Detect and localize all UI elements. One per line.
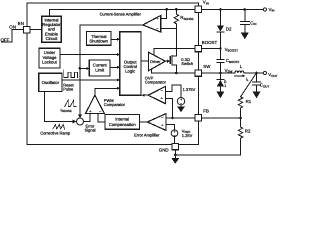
- ground below GND: [171, 158, 179, 164]
- wire boost to driver top: [154, 49, 195, 55]
- svg-text:Switch: Switch: [181, 61, 193, 66]
- ground below D1: [216, 91, 224, 98]
- ground below COUT: [252, 91, 260, 98]
- svg-text:Internal: Internal: [115, 116, 129, 121]
- node rail-csamp junction: [165, 8, 168, 11]
- svg-text:OFF: OFF: [1, 37, 10, 42]
- thermal shutdown block: [87, 32, 112, 46]
- svg-text:FB: FB: [203, 109, 209, 114]
- svg-text:Compensation: Compensation: [109, 122, 137, 127]
- wire corrective ramp from oscillator: [44, 92, 72, 122]
- source 1.375V: [177, 98, 184, 105]
- svg-text:VIN: VIN: [203, 0, 209, 5]
- IC boundary: [27, 3, 199, 145]
- svg-text:ISENSE: ISENSE: [61, 107, 72, 113]
- wire csamp lower input to rsense bottom: [161, 28, 177, 30]
- svg-text:1.25V: 1.25V: [182, 133, 193, 138]
- node FB divider junction: [239, 117, 242, 120]
- wire UVL to OCL: [60, 54, 117, 56]
- current sense amplifier U1: [143, 16, 161, 33]
- svg-text:Signal: Signal: [84, 128, 95, 133]
- svg-text:SW: SW: [203, 64, 211, 69]
- wire error amp output to compensation: [140, 121, 148, 123]
- pin SW: [195, 70, 201, 76]
- external SW wire with inductor L: [202, 72, 235, 74]
- svg-text:Pulse: Pulse: [63, 86, 74, 91]
- svg-text:Oscillator: Oscillator: [42, 80, 60, 85]
- resistor Rsense: [174, 9, 178, 56]
- resistor R2: [175, 118, 242, 155]
- svg-text:Lockout: Lockout: [42, 60, 58, 65]
- diode D1: [219, 73, 221, 79]
- wire thermal shutdown to OCL: [111, 38, 117, 40]
- wire driver bottom to SW: [151, 69, 153, 73]
- svg-text:GND: GND: [159, 148, 169, 153]
- pin EN: [24, 27, 30, 33]
- external boost wire: [202, 48, 221, 50]
- waveform corrective ramp: [53, 125, 65, 129]
- svg-text:RSENSE: RSENSE: [180, 15, 193, 21]
- svg-text:Shutdown: Shutdown: [89, 38, 108, 43]
- resistor R1: [238, 97, 242, 118]
- svg-text:1.375V: 1.375V: [183, 87, 196, 92]
- wire OVP upper input hook to 1.375V: [166, 85, 182, 97]
- wire current limit to OCL: [110, 66, 117, 68]
- wire OCL to driver: [141, 60, 148, 62]
- svg-text:IL: IL: [246, 76, 249, 82]
- wire oscillator to OCL: [62, 79, 117, 81]
- pin FB: [195, 115, 201, 121]
- waveform isense sawtooth: [65, 100, 77, 106]
- error amplifier U5: [147, 114, 166, 131]
- node boost D2 CBOOST junction: [219, 47, 222, 50]
- internal compensation block: [105, 115, 140, 130]
- output control logic block: [120, 32, 141, 95]
- under voltage lockout block: [39, 48, 60, 68]
- wire compensation to PWM minus input: [98, 114, 105, 122]
- wire FB internal to error amp: [166, 117, 195, 119]
- wire error amp plus input to vref: [166, 124, 175, 130]
- ground below CIN: [241, 32, 249, 39]
- node VOUT junction: [255, 72, 258, 75]
- svg-text:L: L: [240, 64, 243, 69]
- svg-text:Circuit: Circuit: [46, 36, 59, 41]
- svg-text:ON: ON: [9, 25, 16, 30]
- pin BOOST: [195, 45, 201, 51]
- capacitor CBOOST: [219, 49, 221, 60]
- svg-text:Logic: Logic: [125, 69, 135, 74]
- diode D2: [219, 10, 221, 26]
- svg-text:Comparator: Comparator: [104, 102, 126, 107]
- svg-text:VSW: VSW: [225, 68, 233, 74]
- external VIN wire top: [202, 9, 264, 11]
- svg-text:R2: R2: [245, 128, 251, 133]
- summing junction: [77, 118, 84, 125]
- capacitor CIN: [244, 10, 246, 21]
- wire isense to current limit: [80, 67, 87, 69]
- svg-text:R1: R1: [246, 99, 252, 104]
- svg-text:Current-Sense Amplifier: Current-Sense Amplifier: [100, 11, 142, 16]
- node rail-rsense junction: [175, 8, 178, 11]
- OVP comparator U3: [148, 86, 165, 103]
- capacitor COUT: [256, 73, 258, 82]
- wire csamp output Isense: [80, 25, 143, 115]
- wire OVP lower input: [166, 98, 173, 118]
- wire PWM output to OCL: [95, 88, 117, 95]
- terminal VOUT: [263, 71, 266, 74]
- wire summing to PWM plus input: [84, 114, 91, 122]
- node OVP sense FB junction: [171, 117, 174, 120]
- csamp input polarity marks: [156, 17, 158, 28]
- svg-text:VOUT: VOUT: [268, 72, 277, 78]
- OCL input arrowheads: [117, 38, 120, 41]
- svg-text:CIN: CIN: [250, 20, 256, 26]
- svg-text:VIN: VIN: [269, 7, 275, 13]
- pin VIN: [195, 6, 201, 12]
- terminal VIN: [263, 8, 266, 11]
- svg-text:Corrective Ramp: Corrective Ramp: [40, 130, 71, 135]
- svg-text:Limit: Limit: [95, 67, 105, 72]
- wire SW internal: [152, 72, 196, 74]
- wire GND pad to ground: [174, 150, 176, 158]
- wire FB external: [202, 117, 240, 119]
- wire EN to internal regulator: [30, 29, 42, 31]
- switch ON/OFF: [2, 30, 24, 42]
- wire csamp upper input to rail: [161, 9, 167, 18]
- wire VOUT to R1 diagonal: [241, 73, 257, 97]
- PWM comparator U4: [85, 95, 104, 113]
- driver U2: [148, 52, 165, 71]
- current limit block: [89, 60, 110, 76]
- internal regulator and enable circuit block: [42, 16, 62, 42]
- error amp input polarity marks: [161, 117, 163, 126]
- wire OVP output to OCL: [145, 94, 149, 96]
- ground below 1.375V: [177, 106, 185, 112]
- pin GND: [172, 143, 178, 149]
- node D2 tap: [219, 8, 222, 11]
- svg-text:Comparator: Comparator: [145, 79, 167, 84]
- node ground rail junction: [174, 154, 177, 157]
- svg-text:D2: D2: [226, 26, 232, 31]
- svg-text:CBOOST: CBOOST: [226, 58, 240, 64]
- wire 1.375V to ground: [180, 105, 182, 107]
- node mosfet source SW junction: [175, 72, 178, 75]
- svg-text:EN: EN: [18, 21, 24, 26]
- svg-text:COUT: COUT: [260, 83, 270, 89]
- source Vref 1.25V: [171, 130, 178, 137]
- node SW D1 junction: [219, 72, 222, 75]
- internal VIN rail: [49, 9, 195, 16]
- waveform reset pulse: [64, 70, 78, 77]
- node CIN tap: [244, 8, 247, 11]
- svg-text:Driver: Driver: [150, 59, 161, 64]
- transistor Q1 0.3ohm switch: [165, 60, 167, 62]
- OVP input polarity marks: [161, 91, 163, 99]
- svg-text:1: 1: [224, 84, 226, 88]
- oscillator block: [39, 73, 62, 91]
- svg-text:Error Amplifier: Error Amplifier: [134, 133, 160, 138]
- svg-text:BOOST: BOOST: [202, 40, 218, 45]
- arrow IL: [235, 75, 243, 77]
- wire vref to gnd edge: [174, 137, 176, 145]
- node isense current limit tap: [79, 67, 82, 70]
- svg-text:VBOOST: VBOOST: [225, 47, 239, 53]
